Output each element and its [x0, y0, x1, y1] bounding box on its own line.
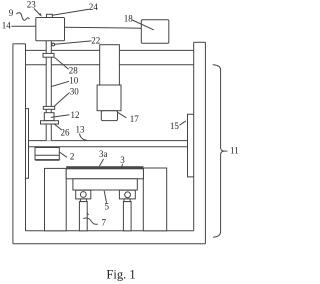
leader 12 — [51, 115, 70, 118]
leader 2 — [59, 152, 67, 157]
right column top edge — [194, 41, 206, 43]
leader 22 — [55, 41, 92, 44]
svg-text:12: 12 — [71, 110, 80, 120]
bracket 2 — [35, 148, 59, 160]
svg-text:3a: 3a — [99, 149, 108, 159]
svg-text:2: 2 — [70, 152, 75, 162]
coupling lower bar 26 — [41, 121, 59, 124]
leader 15 — [180, 121, 186, 125]
svg-text:5: 5 — [104, 202, 109, 212]
svg-text:18: 18 — [124, 14, 134, 24]
leg tick — [88, 213, 89, 215]
svg-text:3: 3 — [120, 155, 125, 165]
brace tick to 11 — [224, 150, 227, 152]
right guide strip 15 — [188, 114, 194, 177]
arrowhead 23 — [39, 13, 42, 17]
controller box 18 — [141, 20, 169, 43]
motor box 14 — [36, 18, 65, 41]
press head upper column 17 — [100, 45, 120, 85]
left support block — [45, 168, 67, 230]
right bearing block — [119, 190, 135, 199]
right leg — [123, 202, 131, 231]
leader 24 — [52, 9, 89, 15]
left bearing block — [76, 190, 91, 199]
svg-text:24: 24 — [89, 2, 99, 12]
svg-text:7: 7 — [101, 218, 106, 228]
press head mid block 17 — [97, 85, 121, 111]
table slab 3 — [66, 169, 143, 179]
leader 18 — [132, 20, 154, 30]
leader 17 — [118, 112, 127, 118]
left column outer edge — [12, 44, 14, 244]
plate 13 bottom line — [29, 146, 188, 148]
inner floor line — [26, 230, 194, 232]
svg-text:17: 17 — [130, 114, 140, 124]
pin circle 22 — [52, 43, 55, 46]
svg-text:Fig. 1: Fig. 1 — [106, 267, 135, 281]
svg-text:14: 14 — [2, 21, 12, 31]
svg-text:15: 15 — [170, 121, 180, 131]
leader 26 — [54, 124, 61, 130]
lead line 14 — [12, 25, 36, 27]
leader 3 — [121, 164, 122, 169]
leader 28 — [55, 58, 69, 70]
squiggle 9 — [16, 13, 29, 21]
left column inner edge — [25, 44, 27, 231]
svg-text:13: 13 — [76, 124, 86, 134]
right neck — [124, 199, 130, 202]
right bearing circle — [125, 192, 131, 198]
base bottom line — [13, 243, 206, 245]
plate 13 top line — [29, 140, 188, 142]
press head tip 17 — [101, 111, 117, 121]
left column top edge — [13, 43, 26, 45]
top tab 23/24 — [47, 14, 53, 17]
right support block — [143, 168, 166, 231]
leader 30 — [54, 93, 69, 107]
brace 11 — [213, 65, 224, 238]
flange 28 — [43, 53, 54, 57]
leader 5 — [104, 191, 106, 203]
left leg 7 — [79, 202, 87, 231]
svg-text:23: 23 — [27, 0, 37, 10]
coupling block 12 — [44, 113, 54, 121]
left guide strip — [26, 109, 29, 179]
svg-text:9: 9 — [9, 8, 14, 18]
leader 3a — [99, 159, 103, 166]
coupling upper bar 30 — [43, 106, 54, 109]
link line to box 18 — [65, 26, 142, 29]
svg-text:30: 30 — [70, 86, 80, 96]
right column inner edge — [193, 42, 195, 231]
leader 23 — [34, 9, 41, 16]
svg-text:22: 22 — [91, 35, 100, 45]
svg-text:10: 10 — [69, 76, 79, 86]
table top layer 3a — [66, 166, 143, 169]
carriage plate — [73, 179, 137, 190]
leader 13 — [80, 134, 87, 141]
cross beam top line — [26, 49, 194, 51]
left bearing circle — [80, 192, 86, 198]
svg-text:26: 26 — [61, 128, 71, 138]
left neck — [80, 199, 86, 202]
leader 10 — [51, 81, 69, 86]
spindle shaft 10 — [46, 41, 51, 140]
cross beam bottom line — [26, 64, 194, 66]
svg-text:28: 28 — [69, 65, 79, 75]
svg-text:11: 11 — [230, 146, 239, 156]
leader 7 — [83, 218, 98, 224]
right column outer edge — [204, 42, 206, 244]
